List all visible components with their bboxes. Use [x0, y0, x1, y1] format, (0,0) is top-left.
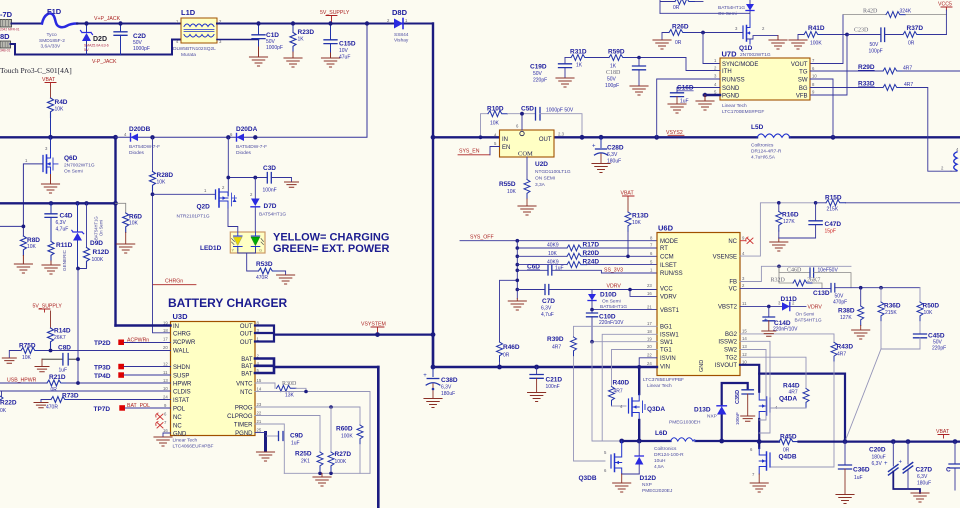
- node VBAT: [42, 77, 56, 98]
- transistor Q2D: [177, 185, 237, 220]
- junction dot U2D IN tap: [431, 135, 436, 140]
- svg-text:0R: 0R: [673, 5, 680, 11]
- svg-text:C45D: C45D: [928, 333, 945, 340]
- resistor R39D: [547, 336, 605, 461]
- svg-text:R38D: R38D: [838, 308, 855, 315]
- svg-text:10K: 10K: [632, 220, 642, 226]
- svg-text:R28D: R28D: [157, 172, 174, 179]
- svg-text:100K: 100K: [810, 41, 822, 47]
- svg-text:SMAZ5.0A-E3-6: SMAZ5.0A-E3-6: [84, 44, 109, 48]
- ground C3D: [285, 182, 299, 187]
- wire Q2D gate: [153, 193, 216, 195]
- svg-text:ISVOUT: ISVOUT: [715, 363, 738, 369]
- svg-text:22: 22: [647, 353, 652, 358]
- ground Q6D source: [42, 175, 60, 194]
- junction dot PROG/R27D: [329, 405, 333, 409]
- svg-text:19: 19: [647, 336, 652, 341]
- svg-text:13: 13: [742, 344, 747, 349]
- wire R43D gate net: [740, 334, 834, 342]
- svg-text:100nF: 100nF: [735, 412, 740, 425]
- svg-text:16: 16: [647, 291, 652, 296]
- svg-text:C7D: C7D: [542, 298, 555, 305]
- svg-text:324K: 324K: [900, 9, 912, 15]
- svg-text:PGND: PGND: [235, 431, 253, 437]
- testpoint TP2D: [94, 338, 149, 348]
- svg-text:R23D: R23D: [298, 29, 315, 36]
- resistor R22D: [0, 391, 17, 414]
- svg-text:R20D: R20D: [583, 250, 600, 257]
- svg-text:220pF: 220pF: [932, 346, 946, 352]
- svg-text:R11D: R11D: [56, 242, 73, 249]
- wire VOUT riser: [810, 15, 843, 64]
- resistor R75D: [9, 343, 40, 362]
- capacitor C edge: [946, 439, 960, 490]
- ground PGND U7D: [696, 101, 714, 110]
- ground under C15D: [322, 53, 340, 67]
- svg-text:10K: 10K: [507, 189, 517, 195]
- capacitor C21D: [530, 365, 562, 393]
- ground under R23D: [284, 52, 302, 67]
- svg-text:R13D: R13D: [632, 213, 649, 220]
- svg-text:20: 20: [647, 344, 652, 349]
- svg-text:22: 22: [257, 411, 262, 416]
- svg-text:D9D: D9D: [90, 240, 103, 247]
- svg-text:R29D: R29D: [858, 64, 875, 71]
- svg-text:1uF: 1uF: [59, 368, 68, 374]
- capacitor C35D: [735, 390, 753, 425]
- resistor R44D: [740, 357, 809, 408]
- svg-text:BG1: BG1: [660, 325, 673, 331]
- svg-text:11: 11: [742, 301, 747, 306]
- svg-text:R31D: R31D: [570, 49, 587, 56]
- svg-text:180uF: 180uF: [441, 391, 455, 397]
- svg-text:0R: 0R: [783, 448, 790, 454]
- svg-text:L5D: L5D: [751, 124, 764, 131]
- ground C14D: [762, 331, 776, 336]
- wire CLPROG line: [255, 416, 320, 453]
- svg-text:BAT54DW-7-F: BAT54DW-7-F: [129, 144, 160, 150]
- svg-text:SW: SW: [798, 78, 808, 84]
- svg-text:0R: 0R: [51, 387, 58, 393]
- svg-text:RUN/SS: RUN/SS: [660, 271, 683, 277]
- capacitor C10D: [587, 310, 625, 342]
- svg-text:14: 14: [257, 387, 262, 392]
- wire SW1 node L6D line: [622, 440, 760, 442]
- svg-text:R40D: R40D: [613, 380, 630, 387]
- svg-text:Q3DA: Q3DA: [647, 406, 665, 413]
- svg-text:10eF50V: 10eF50V: [818, 268, 839, 274]
- svg-text:ISTAT: ISTAT: [173, 398, 189, 404]
- svg-text:ISSW2: ISSW2: [718, 340, 737, 346]
- svg-text:R50D: R50D: [923, 303, 940, 310]
- svg-text:R55D: R55D: [499, 181, 516, 188]
- svg-text:C28D: C28D: [607, 145, 624, 152]
- svg-text:GREEN= EXT. POWER: GREEN= EXT. POWER: [273, 243, 389, 255]
- svg-text:+: +: [764, 318, 768, 324]
- svg-text:SW1: SW1: [660, 340, 674, 346]
- svg-text:NC: NC: [173, 423, 182, 429]
- svg-text:215K: 215K: [885, 310, 897, 316]
- resistor R53D: [256, 261, 286, 281]
- svg-text:BAT: BAT: [241, 364, 253, 370]
- wire U2D OUT rail VSYS2 thick: [554, 136, 757, 138]
- svg-text:470R: 470R: [46, 405, 58, 411]
- resistor R60D: [336, 425, 363, 473]
- junction dot R46D rail: [497, 365, 502, 370]
- svg-text:R41D: R41D: [808, 25, 825, 32]
- bar PGND thick stub: [264, 433, 267, 451]
- svg-text:GND: GND: [699, 360, 705, 372]
- svg-text:F1D: F1D: [47, 7, 62, 16]
- wire VCC/VDRV tie: [630, 290, 657, 297]
- svg-text:12: 12: [742, 352, 747, 357]
- junction dot R38D: [859, 286, 863, 290]
- svg-text:Q2D: Q2D: [197, 204, 211, 211]
- svg-text:0R: 0R: [908, 41, 915, 47]
- ground C28D: [592, 164, 610, 173]
- wire BG1 to R39D: [574, 326, 658, 337]
- ground C21D: [528, 393, 546, 402]
- svg-text:3,6A/33V: 3,6A/33V: [41, 44, 62, 50]
- diode BAT54HT1G above Q1D: [660, 0, 754, 17]
- svg-text:21: 21: [257, 419, 262, 424]
- svg-text:V-P_JACK: V-P_JACK: [92, 59, 117, 65]
- wire Q2D source to LED: [228, 208, 238, 232]
- svg-text:10K: 10K: [490, 121, 500, 127]
- svg-text:D8D: D8D: [392, 8, 408, 17]
- svg-text:47uF: 47uF: [339, 55, 350, 61]
- svg-text:R33D: R33D: [858, 81, 875, 88]
- svg-text:L1D: L1D: [181, 8, 196, 17]
- resistor R28D: [150, 137, 174, 332]
- ground R55D: [518, 206, 536, 215]
- svg-text:127K: 127K: [783, 219, 795, 225]
- svg-text:R46D: R46D: [503, 344, 520, 351]
- IC U6D: [643, 224, 747, 390]
- junction dot C8D/ACPWR: [76, 357, 80, 361]
- wire Q2D drain: [227, 137, 229, 196]
- inductor L5D: [751, 124, 790, 161]
- ground C8D: [35, 367, 49, 372]
- svg-text:Q4DA: Q4DA: [779, 396, 797, 403]
- svg-text:D10D: D10D: [600, 292, 617, 299]
- svg-text:100pF: 100pF: [869, 49, 883, 55]
- junction dot SYS_OFF bus: [516, 239, 520, 243]
- svg-text:10K: 10K: [22, 355, 32, 361]
- svg-text:BAT54DW-7-F: BAT54DW-7-F: [236, 144, 267, 150]
- resistor R25D: [295, 451, 323, 474]
- svg-text:14: 14: [742, 336, 747, 341]
- wire prog gnd rail: [284, 472, 370, 474]
- svg-text:POL: POL: [173, 406, 186, 412]
- svg-text:Touch Pro3-C_S01[4A]: Touch Pro3-C_S01[4A]: [0, 66, 72, 75]
- ground under R11D: [42, 261, 60, 274]
- svg-text:D13D: D13D: [694, 407, 711, 414]
- resistor R41D: [798, 25, 880, 47]
- svg-text:NC: NC: [728, 239, 737, 245]
- ground divider bus: [508, 299, 526, 311]
- svg-text:16: 16: [163, 428, 168, 433]
- svg-text:ITH: ITH: [722, 69, 732, 75]
- svg-text:VC: VC: [729, 287, 738, 293]
- svg-text:127K: 127K: [840, 315, 852, 321]
- junction dot R26D/gate: [701, 31, 705, 35]
- svg-text:C18D: C18D: [606, 70, 621, 76]
- svg-text:C1D: C1D: [266, 32, 279, 39]
- svg-text:TG1: TG1: [660, 348, 672, 354]
- svg-text:2,3: 2,3: [558, 132, 565, 137]
- ground Q1D source: [769, 36, 787, 50]
- resistor R17D: [516, 242, 658, 252]
- svg-text:100nF: 100nF: [546, 384, 560, 390]
- svg-text:100pF: 100pF: [605, 83, 619, 89]
- diode D12D: [622, 441, 673, 494]
- resistor R45D: [759, 434, 960, 454]
- svg-text:PROG: PROG: [235, 405, 253, 411]
- svg-text:VOUT: VOUT: [791, 62, 808, 68]
- svg-text:VDRV: VDRV: [808, 305, 823, 311]
- capacitor C18D: [605, 56, 646, 89]
- zener D9D: [72, 201, 104, 268]
- junction dot R4D bus: [48, 135, 53, 140]
- svg-text:Tyco: Tyco: [47, 32, 57, 38]
- wire LED cathodes to R53D: [238, 250, 259, 271]
- junction dot D9D/R12D: [76, 267, 80, 271]
- transistor Q4DB: [750, 447, 797, 477]
- svg-text:24: 24: [163, 395, 168, 400]
- svg-text:25: 25: [257, 428, 262, 433]
- svg-text:R24D: R24D: [583, 258, 600, 265]
- svg-text:24: 24: [647, 361, 652, 366]
- svg-text:2K1: 2K1: [301, 459, 310, 465]
- svg-text:C2D: C2D: [133, 33, 146, 40]
- resistor R40D: [609, 380, 630, 407]
- node VBAT right: [936, 429, 950, 444]
- wire L1D pin2 to D8D rail: [217, 23, 433, 25]
- junction dot C47D: [814, 201, 818, 205]
- node VSYSTEM: [361, 322, 386, 338]
- junction dot SW tap: [831, 135, 836, 140]
- svg-text:4R7: 4R7: [789, 390, 798, 396]
- svg-text:23: 23: [647, 283, 652, 288]
- inductor L1D common-mode choke: [173, 8, 222, 58]
- capacitor C9D: [267, 432, 304, 447]
- svg-text:18: 18: [647, 329, 652, 334]
- resistor R14D: [48, 311, 71, 351]
- capacitor C14D: [763, 306, 798, 332]
- svg-text:TP4D: TP4D: [94, 373, 111, 380]
- NC pin red X: [740, 237, 753, 244]
- svg-text:DR124-100-R: DR124-100-R: [654, 452, 684, 458]
- svg-text:R26D: R26D: [672, 24, 689, 31]
- wire WALL line: [41, 350, 171, 352]
- svg-text:On Semi: On Semi: [99, 220, 104, 236]
- svg-text:8D: 8D: [0, 32, 10, 41]
- svg-text:R60D: R60D: [336, 426, 353, 433]
- svg-text:1uF: 1uF: [291, 441, 300, 447]
- node SYS_EN: [458, 147, 500, 155]
- wire L1D pin3 to C1D bottom: [217, 39, 259, 41]
- wire ACPWR line: [124, 342, 171, 344]
- svg-text:6,3V: 6,3V: [441, 385, 452, 391]
- svg-text:R8D: R8D: [27, 237, 40, 244]
- node CHRGn: [153, 279, 196, 285]
- connector J8D: [0, 32, 11, 53]
- svg-text:OUT: OUT: [240, 324, 253, 330]
- IC U7D: [714, 50, 817, 116]
- junction dot R16D: [777, 201, 781, 205]
- svg-text:NXP: NXP: [642, 482, 652, 488]
- diode D8D: [387, 8, 409, 44]
- junction dot R41D/VFB: [845, 33, 849, 37]
- svg-text:SUSP: SUSP: [173, 373, 189, 379]
- junction dot R13D/CCM: [626, 254, 630, 258]
- wire thick upper-left bus: [0, 136, 116, 138]
- zener D2D: [81, 24, 109, 55]
- svg-text:4R7: 4R7: [837, 352, 846, 358]
- svg-text:SMD185F-2: SMD185F-2: [39, 38, 65, 44]
- node VSYS2: [666, 130, 684, 136]
- resistor 0R top edge: [660, 0, 703, 13]
- testpoint TP3D: [94, 364, 171, 372]
- svg-text:220pF: 220pF: [533, 78, 547, 84]
- resistor R59D: [591, 49, 687, 70]
- svg-text:C38D: C38D: [441, 377, 458, 384]
- wire Q4DA source to Q4DB thick: [758, 419, 760, 448]
- svg-text:BAT54HT1G: BAT54HT1G: [718, 5, 745, 11]
- ground C38D: [424, 399, 442, 408]
- svg-text:15: 15: [257, 378, 262, 383]
- svg-text:18: 18: [163, 328, 168, 333]
- capacitor C38D: [423, 365, 458, 399]
- svg-text:D20DB: D20DB: [129, 126, 151, 133]
- junction dot RUN/SS tap: [654, 135, 659, 140]
- svg-text:BAT54HT1G: BAT54HT1G: [600, 304, 627, 310]
- svg-text:4,5A: 4,5A: [654, 464, 665, 470]
- svg-text:CLDIS: CLDIS: [173, 389, 191, 395]
- svg-text:26K7: 26K7: [807, 278, 820, 284]
- ground C19D: [556, 78, 574, 87]
- svg-text:C6D: C6D: [527, 264, 540, 271]
- svg-text:4R7: 4R7: [552, 345, 561, 351]
- wire ITH net: [686, 58, 720, 71]
- wire ACPWR drop: [77, 269, 79, 384]
- svg-text:FB: FB: [729, 280, 737, 286]
- wire feedback diagonal: [845, 349, 881, 442]
- svg-text:10K: 10K: [157, 180, 167, 186]
- svg-text:0R: 0R: [675, 40, 682, 46]
- ground under R6D: [117, 244, 135, 253]
- wire thick left vertical: [114, 137, 116, 325]
- wire TIMER line: [255, 424, 284, 473]
- svg-text:+: +: [899, 460, 903, 466]
- svg-text:Coiltronics: Coiltronics: [751, 143, 774, 149]
- ground R41D: [789, 40, 807, 49]
- junction dot C15D: [328, 21, 332, 25]
- svg-text:BG: BG: [799, 86, 808, 92]
- svg-text:VCC: VCC: [660, 287, 673, 293]
- wire PROG line: [255, 407, 360, 425]
- svg-text:LTC1700EMS#PGF: LTC1700EMS#PGF: [722, 109, 764, 115]
- svg-text:10K: 10K: [55, 107, 65, 113]
- wire VBST1 net: [592, 309, 657, 311]
- svg-text:R12D: R12D: [93, 249, 110, 256]
- resistor R36D: [878, 288, 901, 349]
- resistor R4D: [48, 98, 68, 137]
- svg-text:R42D: R42D: [863, 9, 878, 15]
- ground Q3DB: [613, 474, 631, 492]
- svg-text:DLW5BTN102SQ2L: DLW5BTN102SQ2L: [173, 46, 216, 52]
- svg-text:100K: 100K: [92, 257, 104, 263]
- svg-text:D2D: D2D: [93, 36, 107, 43]
- resistor R38D: [838, 288, 864, 330]
- resistor R20D: [516, 250, 658, 259]
- svg-text:1K: 1K: [610, 64, 617, 70]
- junction dot R23D: [291, 21, 295, 25]
- svg-text:C20D: C20D: [869, 447, 886, 454]
- ground Q4DB: [750, 474, 768, 492]
- svg-text:Linear Tech: Linear Tech: [647, 383, 672, 389]
- svg-text:40K9: 40K9: [547, 243, 559, 249]
- wire SYNC/MODE net: [703, 33, 720, 64]
- resistor R26D: [662, 24, 743, 47]
- svg-text:SS_3V3: SS_3V3: [604, 268, 623, 274]
- svg-text:C4D: C4D: [60, 213, 73, 220]
- svg-text:TP2D: TP2D: [94, 340, 111, 347]
- ground R26D: [653, 40, 671, 49]
- svg-text:R16D: R16D: [782, 212, 799, 219]
- svg-text:470R: 470R: [256, 275, 268, 281]
- svg-text:C8D: C8D: [58, 345, 71, 352]
- wire CLDIS line: [0, 390, 171, 392]
- capacitor C46D: [777, 265, 851, 288]
- svg-text:NC: NC: [173, 415, 182, 421]
- wire VIN rail thick: [433, 366, 657, 368]
- node 5V_SUPPLY: [320, 10, 350, 22]
- junction dot Q2D drain tap: [226, 135, 230, 139]
- svg-text:TG: TG: [799, 70, 808, 76]
- svg-text:C46D: C46D: [787, 268, 802, 274]
- svg-text:220nF/10V: 220nF/10V: [599, 320, 624, 326]
- svg-text:C35D: C35D: [735, 390, 741, 404]
- svg-text:15pF: 15pF: [825, 229, 836, 235]
- svg-text:1000pF 50V: 1000pF 50V: [546, 108, 574, 114]
- svg-text:VNTC: VNTC: [236, 381, 253, 387]
- junction dot 5V rail tap: [365, 21, 369, 25]
- svg-text:ILSET: ILSET: [660, 263, 677, 269]
- svg-text:Q1D: Q1D: [739, 45, 753, 52]
- wire ISVOUT thick: [740, 365, 845, 442]
- resistor R12D: [78, 201, 110, 268]
- svg-text:U3D: U3D: [173, 312, 189, 321]
- wire bootstrap drop: [592, 342, 602, 441]
- svg-text:40K9: 40K9: [547, 259, 559, 265]
- svg-text:D7D: D7D: [264, 203, 277, 210]
- wire PGND thick stub: [703, 93, 720, 101]
- node 5V_SUPPLY R14D: [33, 304, 63, 313]
- ground R38D: [852, 330, 870, 339]
- wire Q3DA drain thick: [638, 367, 640, 394]
- svg-text:CCM: CCM: [660, 255, 674, 261]
- svg-text:13: 13: [163, 378, 168, 383]
- svg-text:100nF: 100nF: [263, 188, 277, 194]
- svg-text:VDRV: VDRV: [660, 295, 677, 301]
- svg-text:21: 21: [647, 304, 652, 309]
- svg-text:RUN/SS: RUN/SS: [722, 78, 745, 84]
- junction dot Q3DA drain: [637, 365, 641, 369]
- svg-text:TIMER: TIMER: [234, 422, 253, 428]
- svg-text:YELLOW= CHARGING: YELLOW= CHARGING: [273, 232, 389, 244]
